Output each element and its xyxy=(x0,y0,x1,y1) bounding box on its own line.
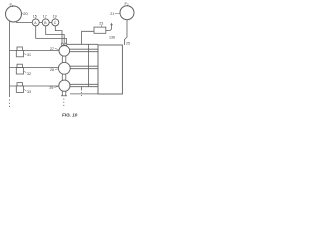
svg-text:28: 28 xyxy=(50,68,54,72)
gauge F1 xyxy=(6,6,22,22)
svg-text:F2: F2 xyxy=(125,1,129,7)
pump 28 xyxy=(58,62,70,74)
svg-text:17: 17 xyxy=(43,14,47,18)
wire drop from sensor C xyxy=(55,26,62,43)
svg-text:20: 20 xyxy=(23,11,28,16)
wire drain dotted xyxy=(80,92,82,98)
wire shaft dotted continuation xyxy=(63,99,65,109)
wire drop from sensor B xyxy=(46,26,64,43)
wire valve row 3 xyxy=(10,85,60,87)
wire drain stub below row 3 xyxy=(80,87,82,91)
port node 24 xyxy=(61,43,63,45)
wire vertical bus right of pumps xyxy=(88,44,90,86)
sensor C xyxy=(52,19,59,26)
svg-text:15: 15 xyxy=(33,14,37,18)
wire drop from F2 gauge xyxy=(125,20,128,45)
svg-text:33: 33 xyxy=(27,90,31,94)
svg-text:29: 29 xyxy=(49,86,53,90)
wire from box 23 down to manifold line xyxy=(82,31,94,44)
wire shaft bottom tick xyxy=(61,95,67,97)
pump 27 xyxy=(59,46,70,57)
svg-text:31: 31 xyxy=(27,53,31,57)
valve 31 xyxy=(17,47,22,50)
valve 32 xyxy=(17,64,22,67)
wire left vertical bus xyxy=(9,21,11,97)
sensor B xyxy=(42,19,49,26)
arrow from box 23 xyxy=(106,24,112,30)
wire bottom line to tank xyxy=(70,93,98,95)
wire pump1 right pair xyxy=(70,49,99,52)
svg-text:32: 32 xyxy=(27,72,31,76)
wire pump3 right pair xyxy=(70,84,98,86)
svg-text:136: 136 xyxy=(109,36,115,40)
wire valve row 1 xyxy=(10,49,60,51)
wire left bus dotted continuation xyxy=(9,100,11,109)
sensor A xyxy=(32,19,39,26)
svg-text:25: 25 xyxy=(126,41,130,45)
wire top bus from F1 gauge to sensors xyxy=(16,21,59,23)
pump 29 xyxy=(59,80,70,91)
box 23 xyxy=(94,27,106,33)
wire pump2 right pair xyxy=(70,66,98,69)
wire drop from sensor A xyxy=(36,26,67,43)
svg-text:19: 19 xyxy=(53,14,57,18)
wire top manifold line xyxy=(67,43,98,45)
svg-text:F1: F1 xyxy=(10,2,14,8)
gauge F2 xyxy=(120,6,134,20)
valve 33 xyxy=(17,83,22,86)
svg-text:27: 27 xyxy=(50,47,54,51)
port node 26 xyxy=(65,43,67,45)
manifold block 10 xyxy=(98,45,122,94)
wire pump shaft lines xyxy=(62,45,66,96)
wire valve row 2 xyxy=(10,67,59,69)
svg-text:21: 21 xyxy=(110,12,114,16)
label 20 xyxy=(21,13,23,14)
svg-text:FIG. 10: FIG. 10 xyxy=(62,113,78,118)
